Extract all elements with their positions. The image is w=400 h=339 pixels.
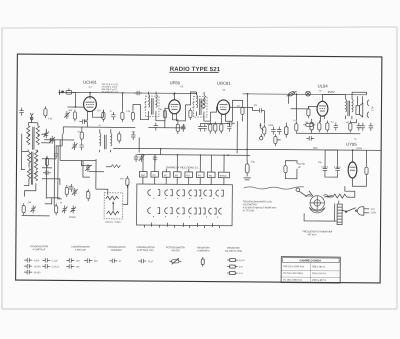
resistor R13 bbox=[318, 120, 321, 132]
annotation scale note bbox=[305, 195, 314, 198]
svg-text:CONDENSATORI: CONDENSATORI bbox=[30, 245, 49, 248]
label 250V bbox=[328, 90, 335, 94]
sheet edge bottom bbox=[2, 308, 397, 310]
capacitor C8 bbox=[154, 123, 158, 131]
svg-text:CONDENSATORI: CONDENSATORI bbox=[71, 245, 90, 248]
legend c1 symbol e bbox=[42, 264, 60, 269]
wire mid links2 bbox=[95, 159, 97, 189]
wire UL84 cathode group bbox=[319, 119, 321, 122]
wire vertical x237 bbox=[236, 121, 238, 153]
tube UY85 envelope bbox=[348, 162, 357, 178]
legend c5 symbol potentiometer bbox=[169, 258, 181, 264]
legend c2 symbol b bbox=[66, 264, 80, 269]
legend c2 symbol c bbox=[84, 258, 98, 263]
svg-text:CONDENSATORI: CONDENSATORI bbox=[136, 246, 155, 249]
legend c3 symbol bbox=[109, 259, 122, 263]
label UY85 bbox=[346, 142, 357, 147]
node B+ drop x297 bbox=[296, 93, 298, 95]
legend column 6 header bbox=[197, 247, 210, 252]
capacitor C18 bbox=[357, 123, 361, 131]
svg-text:GAMME DI RICEZIONE S.1: GAMME DI RICEZIONE S.1 bbox=[166, 165, 199, 169]
resistor R26 bbox=[87, 189, 90, 201]
trimmer C36 bbox=[85, 164, 91, 172]
sheet edge left bbox=[1, 28, 3, 309]
svg-text:AL TELAIO: AL TELAIO bbox=[243, 209, 255, 212]
label 200V bbox=[356, 146, 362, 150]
resistor R19 bbox=[55, 203, 58, 215]
wire speaker returns bbox=[350, 119, 356, 123]
resistor R22 osc bbox=[118, 131, 121, 143]
resistor R25 bbox=[44, 106, 47, 118]
wire UY85 anode feed bbox=[345, 186, 355, 197]
capacitor C18c edge bbox=[369, 123, 373, 131]
capacitor C25 bbox=[334, 166, 341, 174]
capacitor C11 bbox=[203, 124, 207, 132]
wire speaker feeds bbox=[357, 96, 362, 105]
svg-text:A 20.000 OHM/VOLT RISPETTO: A 20.000 OHM/VOLT RISPETTO bbox=[243, 206, 277, 209]
electrolytic C13 bbox=[285, 123, 289, 138]
wire UBC81 cathode bbox=[220, 117, 222, 123]
wire R3 top bbox=[121, 108, 123, 110]
legend column 2 header bbox=[71, 245, 90, 251]
tube UCH81 envelope bbox=[84, 97, 97, 112]
wire drop x288 bbox=[288, 94, 290, 103]
wire left vertical x46.5 bbox=[45, 157, 47, 199]
resistor R3 bbox=[121, 110, 124, 122]
resistor R4 bbox=[131, 110, 134, 122]
node dots on rail bbox=[142, 154, 225, 156]
resistor R5 bbox=[163, 108, 166, 128]
node heater x247 bbox=[246, 148, 248, 150]
capacitor C17 bbox=[334, 123, 338, 131]
svg-text:OM: OM bbox=[141, 175, 145, 177]
wire rail B bbox=[137, 154, 250, 157]
trimmer C26 bottom-left bbox=[30, 205, 36, 213]
svg-text:A MICA pF: A MICA pF bbox=[75, 249, 87, 252]
trimmer C27 bbox=[62, 205, 68, 213]
band label box 1 bbox=[139, 172, 147, 178]
label mains V bbox=[371, 208, 377, 215]
antenna input terminal bbox=[59, 90, 64, 95]
wire R4 top bbox=[133, 104, 141, 110]
wire coil taps bbox=[21, 129, 60, 197]
svg-text:OC 5,9 a 18,2 Mc/s: OC 5,9 a 18,2 Mc/s bbox=[283, 273, 304, 275]
resistor R15 filter bbox=[284, 161, 297, 176]
wire long vertical left b bbox=[58, 146, 62, 199]
resistor R17 mains dropper zigzag bbox=[327, 194, 352, 198]
svg-text:UCH81: UCH81 bbox=[83, 80, 97, 85]
svg-text:TENSIONI MISURATE CON: TENSIONI MISURATE CON bbox=[243, 200, 272, 203]
svg-text:FONO: FONO bbox=[220, 176, 227, 178]
wire left bus vertical bbox=[21, 134, 25, 170]
label tone pot bbox=[106, 222, 121, 224]
capacitor C19 on heater rail bbox=[134, 154, 138, 162]
wire pot top feeds bbox=[96, 189, 108, 195]
title underline bbox=[169, 71, 218, 73]
resistor R20 bbox=[65, 185, 68, 197]
resistor R7 bbox=[209, 122, 212, 134]
coil tap resistors bbox=[43, 156, 51, 175]
wire UL84 grid from pot bbox=[290, 106, 317, 109]
wire diode row top link bbox=[200, 123, 229, 125]
wire rail link AB bbox=[160, 149, 162, 155]
capacitor C21 bbox=[153, 154, 157, 162]
svg-text:FB: FB bbox=[209, 176, 212, 178]
svg-text:0,5M: 0,5M bbox=[268, 125, 273, 127]
wire filter links bbox=[285, 169, 297, 179]
svg-text:UF89: UF89 bbox=[170, 80, 181, 85]
wire grid2 UCH81 bbox=[92, 110, 103, 118]
svg-text:REGOL. TONO: REGOL. TONO bbox=[106, 222, 121, 224]
resistor R27 bbox=[274, 134, 281, 146]
wire mid links bbox=[83, 161, 90, 178]
UCH81 voltage chart bbox=[102, 83, 119, 94]
wire IF1 sec to UF89 bbox=[156, 108, 169, 121]
trimmer C20 bbox=[139, 154, 145, 162]
capacitor C33 bbox=[19, 108, 23, 116]
capacitor C10b bbox=[227, 124, 231, 132]
svg-text:2m: 2m bbox=[319, 90, 322, 92]
wire vertical x139 bbox=[138, 138, 140, 153]
value labels scatter bbox=[28, 86, 358, 207]
svg-text:FO: FO bbox=[198, 175, 201, 177]
pickup connector X1 bbox=[306, 91, 311, 96]
legend c7 symbol b bbox=[227, 265, 243, 269]
svg-text:A CARTA pF: A CARTA pF bbox=[32, 248, 45, 251]
wire heater rail A bbox=[113, 148, 381, 150]
svg-text:UY85: UY85 bbox=[346, 142, 357, 147]
wire UBC81 plate to C15 bbox=[230, 107, 257, 110]
wire caps down bbox=[325, 173, 338, 177]
wire top RF bus right segment bbox=[243, 93, 367, 96]
resistor R9 diagonal on bus bbox=[287, 91, 297, 96]
capacitor C10 bbox=[198, 123, 202, 131]
wire AVC line bbox=[59, 140, 61, 160]
wire UY85 top bbox=[352, 150, 354, 158]
svg-text:25 µF: 25 µF bbox=[148, 261, 154, 263]
electrolytic C16 bbox=[310, 119, 314, 133]
svg-text:ELETTROLITICI: ELETTROLITICI bbox=[137, 250, 154, 252]
oscillator coil block L2 bbox=[24, 150, 38, 187]
wire diode UBC81 bbox=[210, 107, 217, 112]
capacitor C30 mid bbox=[69, 184, 73, 192]
trimmer C3 bbox=[43, 130, 49, 138]
wire B+ drop to filter bbox=[246, 94, 249, 161]
wire R8 down bbox=[241, 117, 243, 121]
trimmer C29 bbox=[72, 188, 78, 196]
label UF89 bbox=[170, 80, 181, 85]
node B+ drop x247 bbox=[247, 93, 249, 95]
trimmer C4 bbox=[49, 136, 55, 144]
tube UL84 envelope bbox=[317, 101, 328, 116]
capacitor C6 bbox=[111, 112, 115, 120]
resistor R16 bbox=[365, 165, 368, 177]
wire mid rail 128 bbox=[148, 127, 185, 129]
legend c4 symbol bbox=[138, 259, 154, 264]
wire row under fono bbox=[89, 171, 104, 173]
IF transformer T2 bbox=[192, 92, 207, 117]
resistor R13b bbox=[326, 120, 329, 132]
label FONO small bbox=[69, 217, 76, 219]
loudspeaker LS1 bbox=[356, 103, 363, 117]
resistor R23 osc grid bbox=[80, 127, 83, 142]
svg-text:OM 510 a 1640 Kc/s: OM 510 a 1640 Kc/s bbox=[283, 266, 305, 268]
svg-text:A IMPASTO: A IMPASTO bbox=[197, 249, 209, 252]
label UBC81 bbox=[217, 81, 231, 86]
resistor R2 bbox=[102, 110, 105, 122]
label UL84 bbox=[318, 83, 329, 88]
svg-text:5A 0,65 V k 1,4: 5A 0,65 V k 1,4 bbox=[102, 91, 119, 94]
speaker terminal brace upper bbox=[367, 100, 369, 106]
coupling capacitor C1 on antenna lead bbox=[66, 88, 72, 94]
trimmer C38 bbox=[64, 111, 70, 119]
wire transformer to switch bbox=[342, 210, 346, 212]
resistor R7c cathode bbox=[220, 122, 223, 134]
wire box stubs to switch bbox=[143, 177, 224, 184]
wire switch bottom stubs bbox=[145, 223, 220, 229]
svg-text:CORDA: CORDA bbox=[305, 195, 314, 198]
svg-text:0,5 W: 0,5 W bbox=[239, 260, 246, 262]
drum mounting frame bbox=[304, 191, 337, 221]
sheet edge right bbox=[396, 27, 398, 309]
band switch S1 frame bbox=[137, 184, 233, 226]
speaker terminal brace lower bbox=[367, 112, 369, 118]
mains switch S2 bbox=[345, 208, 357, 213]
legend column 1 header bbox=[30, 245, 49, 251]
capacitor C5 bbox=[54, 151, 58, 159]
sheet edge top bbox=[2, 27, 397, 28]
switch wafer contacts row 2 bbox=[148, 208, 222, 218]
dial cord pulley left bbox=[296, 188, 306, 196]
IF transformer T1 bbox=[144, 92, 159, 117]
svg-text:VALORI IN OHM: VALORI IN OHM bbox=[225, 250, 242, 253]
dial cord bbox=[244, 186, 304, 189]
wire lowerleft links2 bbox=[45, 198, 52, 204]
label UCH81 bbox=[83, 80, 97, 85]
capacitor C14 bbox=[277, 127, 281, 135]
resistor R12 bbox=[303, 123, 315, 126]
wire caps to rail bbox=[325, 150, 338, 166]
capacitor C32 bbox=[79, 142, 83, 150]
resistor R10 bbox=[295, 121, 298, 133]
capacitor C9 bbox=[181, 124, 185, 132]
svg-text:RESISTORI: RESISTORI bbox=[197, 247, 210, 249]
svg-text:1M: 1M bbox=[236, 106, 239, 108]
svg-text:OM: OM bbox=[28, 202, 32, 204]
svg-text:220V: 220V bbox=[371, 211, 377, 214]
wave range table bbox=[281, 257, 340, 283]
legend column 4 header bbox=[136, 246, 155, 252]
wire bottom-left rail bbox=[22, 215, 50, 217]
svg-text:UBC81: UBC81 bbox=[217, 81, 231, 86]
node heater x228 bbox=[227, 154, 229, 156]
trimmer C28 bbox=[70, 205, 76, 213]
tube UL84 internals bbox=[319, 99, 326, 119]
annotation freq taratura bbox=[302, 230, 332, 236]
svg-text:FONO: FONO bbox=[69, 217, 76, 219]
wire grid cap UF89 bbox=[174, 93, 176, 99]
resistor R11 bbox=[307, 106, 310, 118]
tube UF89 internals bbox=[170, 104, 178, 117]
switch wafer contacts row 1 bbox=[148, 190, 224, 200]
legend c1 symbol a bbox=[24, 258, 40, 263]
output transformer T4 bbox=[345, 95, 353, 119]
capacitor C18b bbox=[361, 123, 365, 131]
svg-text:GAMME D'ONDA: GAMME D'ONDA bbox=[299, 258, 321, 262]
resistor R28 diode load bbox=[201, 99, 204, 109]
svg-text:OC: OC bbox=[152, 175, 156, 177]
schematic frame bbox=[16, 54, 382, 283]
node dot antenna bbox=[75, 106, 77, 108]
node dot UF89 grid bbox=[174, 92, 176, 94]
legend c6 symbol bbox=[201, 257, 204, 267]
label 85V bbox=[313, 146, 318, 150]
capacitor C39 bbox=[227, 121, 235, 125]
antenna coil block L1 bbox=[27, 113, 40, 150]
svg-text:467 Kc/s: 467 Kc/s bbox=[307, 234, 317, 236]
resistor R14 bbox=[349, 121, 352, 133]
wire mains wiring bbox=[338, 201, 340, 204]
svg-text:POTENZIOMETRI: POTENZIOMETRI bbox=[166, 247, 185, 249]
node dot x122 bbox=[122, 92, 124, 94]
legend column 5 header bbox=[166, 247, 185, 252]
svg-text:RESISTORI: RESISTORI bbox=[227, 248, 240, 250]
band label box 7 bbox=[207, 172, 215, 178]
svg-text:0,1 µF: 0,1 µF bbox=[52, 260, 59, 262]
band label box 6 bbox=[196, 172, 204, 178]
node dot grid UCH81 bbox=[89, 92, 91, 94]
svg-text:CONDENSATORI: CONDENSATORI bbox=[107, 246, 126, 249]
wire drop x297 bbox=[295, 94, 297, 120]
svg-text:250V: 250V bbox=[328, 90, 335, 94]
wire IF2 sec bottom to diode bbox=[204, 112, 211, 121]
wire UBC81 plate up bbox=[225, 100, 242, 121]
wire long vertical left c bbox=[61, 134, 63, 146]
wire AF coupling bbox=[263, 111, 265, 124]
svg-text:VALORI: VALORI bbox=[171, 249, 180, 252]
tube UF89 envelope bbox=[169, 100, 181, 114]
wire rail to band boxes bbox=[143, 155, 224, 173]
band label box 4 bbox=[173, 172, 181, 178]
wire antenna rail bbox=[67, 106, 84, 108]
svg-text:588 a 183 m: 588 a 183 m bbox=[312, 266, 325, 268]
svg-text:ALT.: ALT. bbox=[370, 106, 374, 111]
wire antenna drop bbox=[72, 92, 76, 107]
resistor R7b bbox=[214, 122, 217, 134]
capacitor C7 bbox=[79, 119, 87, 127]
tube UBC81 internals bbox=[219, 105, 227, 118]
wire fono L path bbox=[82, 161, 93, 166]
component small res R21 bbox=[126, 176, 129, 188]
lamp LP1 bbox=[260, 134, 263, 140]
svg-text:VOLTMETRO: VOLTMETRO bbox=[243, 204, 257, 206]
node rail link bbox=[160, 148, 162, 150]
legend c1 symbol d bbox=[42, 258, 58, 263]
svg-text:CERAMICI: CERAMICI bbox=[111, 249, 123, 252]
wire long vertical left a bbox=[53, 140, 56, 206]
resistor R6 UF89 cathode bbox=[176, 122, 179, 134]
wire R16 top bbox=[366, 150, 368, 164]
wire IF1 bottom stubs bbox=[140, 105, 148, 120]
svg-text:200V: 200V bbox=[356, 146, 362, 150]
resistor R18 bottom-left bbox=[22, 203, 25, 215]
legend c7 symbol c bbox=[227, 272, 243, 276]
wire mixer stage rail bbox=[63, 126, 135, 129]
node UY85 top bbox=[352, 149, 354, 151]
trimmer C31 bbox=[72, 142, 78, 150]
tube UY85 internals bbox=[349, 158, 355, 182]
wire ground rail UL84 bbox=[296, 132, 360, 135]
mains plug bbox=[357, 207, 369, 215]
svg-text:50,8 a 16,4 m: 50,8 a 16,4 m bbox=[312, 273, 326, 275]
wire AVC horizontal bbox=[60, 159, 96, 161]
label 50+50 bbox=[298, 163, 305, 169]
resistor R6b screen bbox=[189, 108, 192, 120]
svg-text:85V: 85V bbox=[313, 146, 318, 150]
capacitor C24 bbox=[321, 165, 328, 173]
capacitor C12 bbox=[271, 127, 275, 135]
legend c1 symbol c bbox=[24, 270, 41, 275]
label ALT bbox=[370, 106, 374, 111]
wire grid cap UCH81 bbox=[89, 93, 91, 97]
svg-text:0,25 µF: 0,25 µF bbox=[52, 266, 60, 268]
power transformer core bbox=[337, 204, 342, 225]
wire IF2 pri top bbox=[196, 92, 198, 95]
capacitor C35 bbox=[131, 132, 135, 140]
resistor R8 volume top bbox=[241, 105, 244, 117]
legend c7 symbol a bbox=[227, 259, 245, 263]
resistor R1 bbox=[73, 110, 76, 122]
svg-text:FREQUENZA DI TARATURA: FREQUENZA DI TARATURA bbox=[302, 230, 332, 233]
wire UL84 plate to output transformer bbox=[323, 94, 346, 99]
volume potentiometer P1 bbox=[259, 123, 266, 137]
wire AVC drop x122 bbox=[121, 93, 123, 109]
band label box 8 bbox=[218, 172, 229, 178]
svg-text:5.000: 5.000 bbox=[34, 260, 40, 262]
wire output B+ bbox=[352, 92, 367, 95]
title RADIO TYPE 521 bbox=[170, 67, 221, 73]
pin label UF89 bbox=[180, 86, 184, 88]
wire UF89 plate to IF2 bbox=[176, 92, 196, 121]
zigzag R24 fono bbox=[106, 165, 120, 168]
legend c2 symbol a bbox=[66, 258, 80, 263]
wire lowerleft links bbox=[47, 197, 60, 199]
tuning drum bbox=[306, 195, 329, 213]
tube UBC81 envelope bbox=[217, 100, 230, 114]
svg-text:10.000: 10.000 bbox=[34, 266, 41, 268]
label band switch heading bbox=[166, 165, 199, 169]
legend column 7 header bbox=[225, 248, 242, 253]
band label box 3 bbox=[162, 172, 170, 178]
wire mixer drop left bbox=[62, 127, 64, 134]
svg-text:2000 a 857 m: 2000 a 857 m bbox=[312, 280, 326, 282]
legend column 3 header bbox=[107, 246, 126, 252]
wire UCH81 cathode to rail bbox=[83, 114, 87, 120]
tube UCH81 internals bbox=[85, 97, 94, 114]
wire top RF bus bbox=[59, 92, 197, 93]
wire UF89 cathode pins bbox=[172, 117, 178, 122]
wire link to tuning gang bbox=[56, 146, 62, 151]
band label box 2 bbox=[151, 172, 159, 178]
capacitor C15 coupling bbox=[256, 108, 264, 112]
capacitor C37 bbox=[306, 136, 314, 140]
oscillator coil T3 bbox=[100, 129, 112, 152]
tone control block P2 bbox=[104, 193, 123, 219]
wire UY85 cathode down bbox=[352, 177, 366, 187]
svg-text:50.000: 50.000 bbox=[34, 272, 41, 274]
capacitor C34 on bus bbox=[134, 91, 142, 95]
band label box 5 bbox=[185, 172, 193, 178]
